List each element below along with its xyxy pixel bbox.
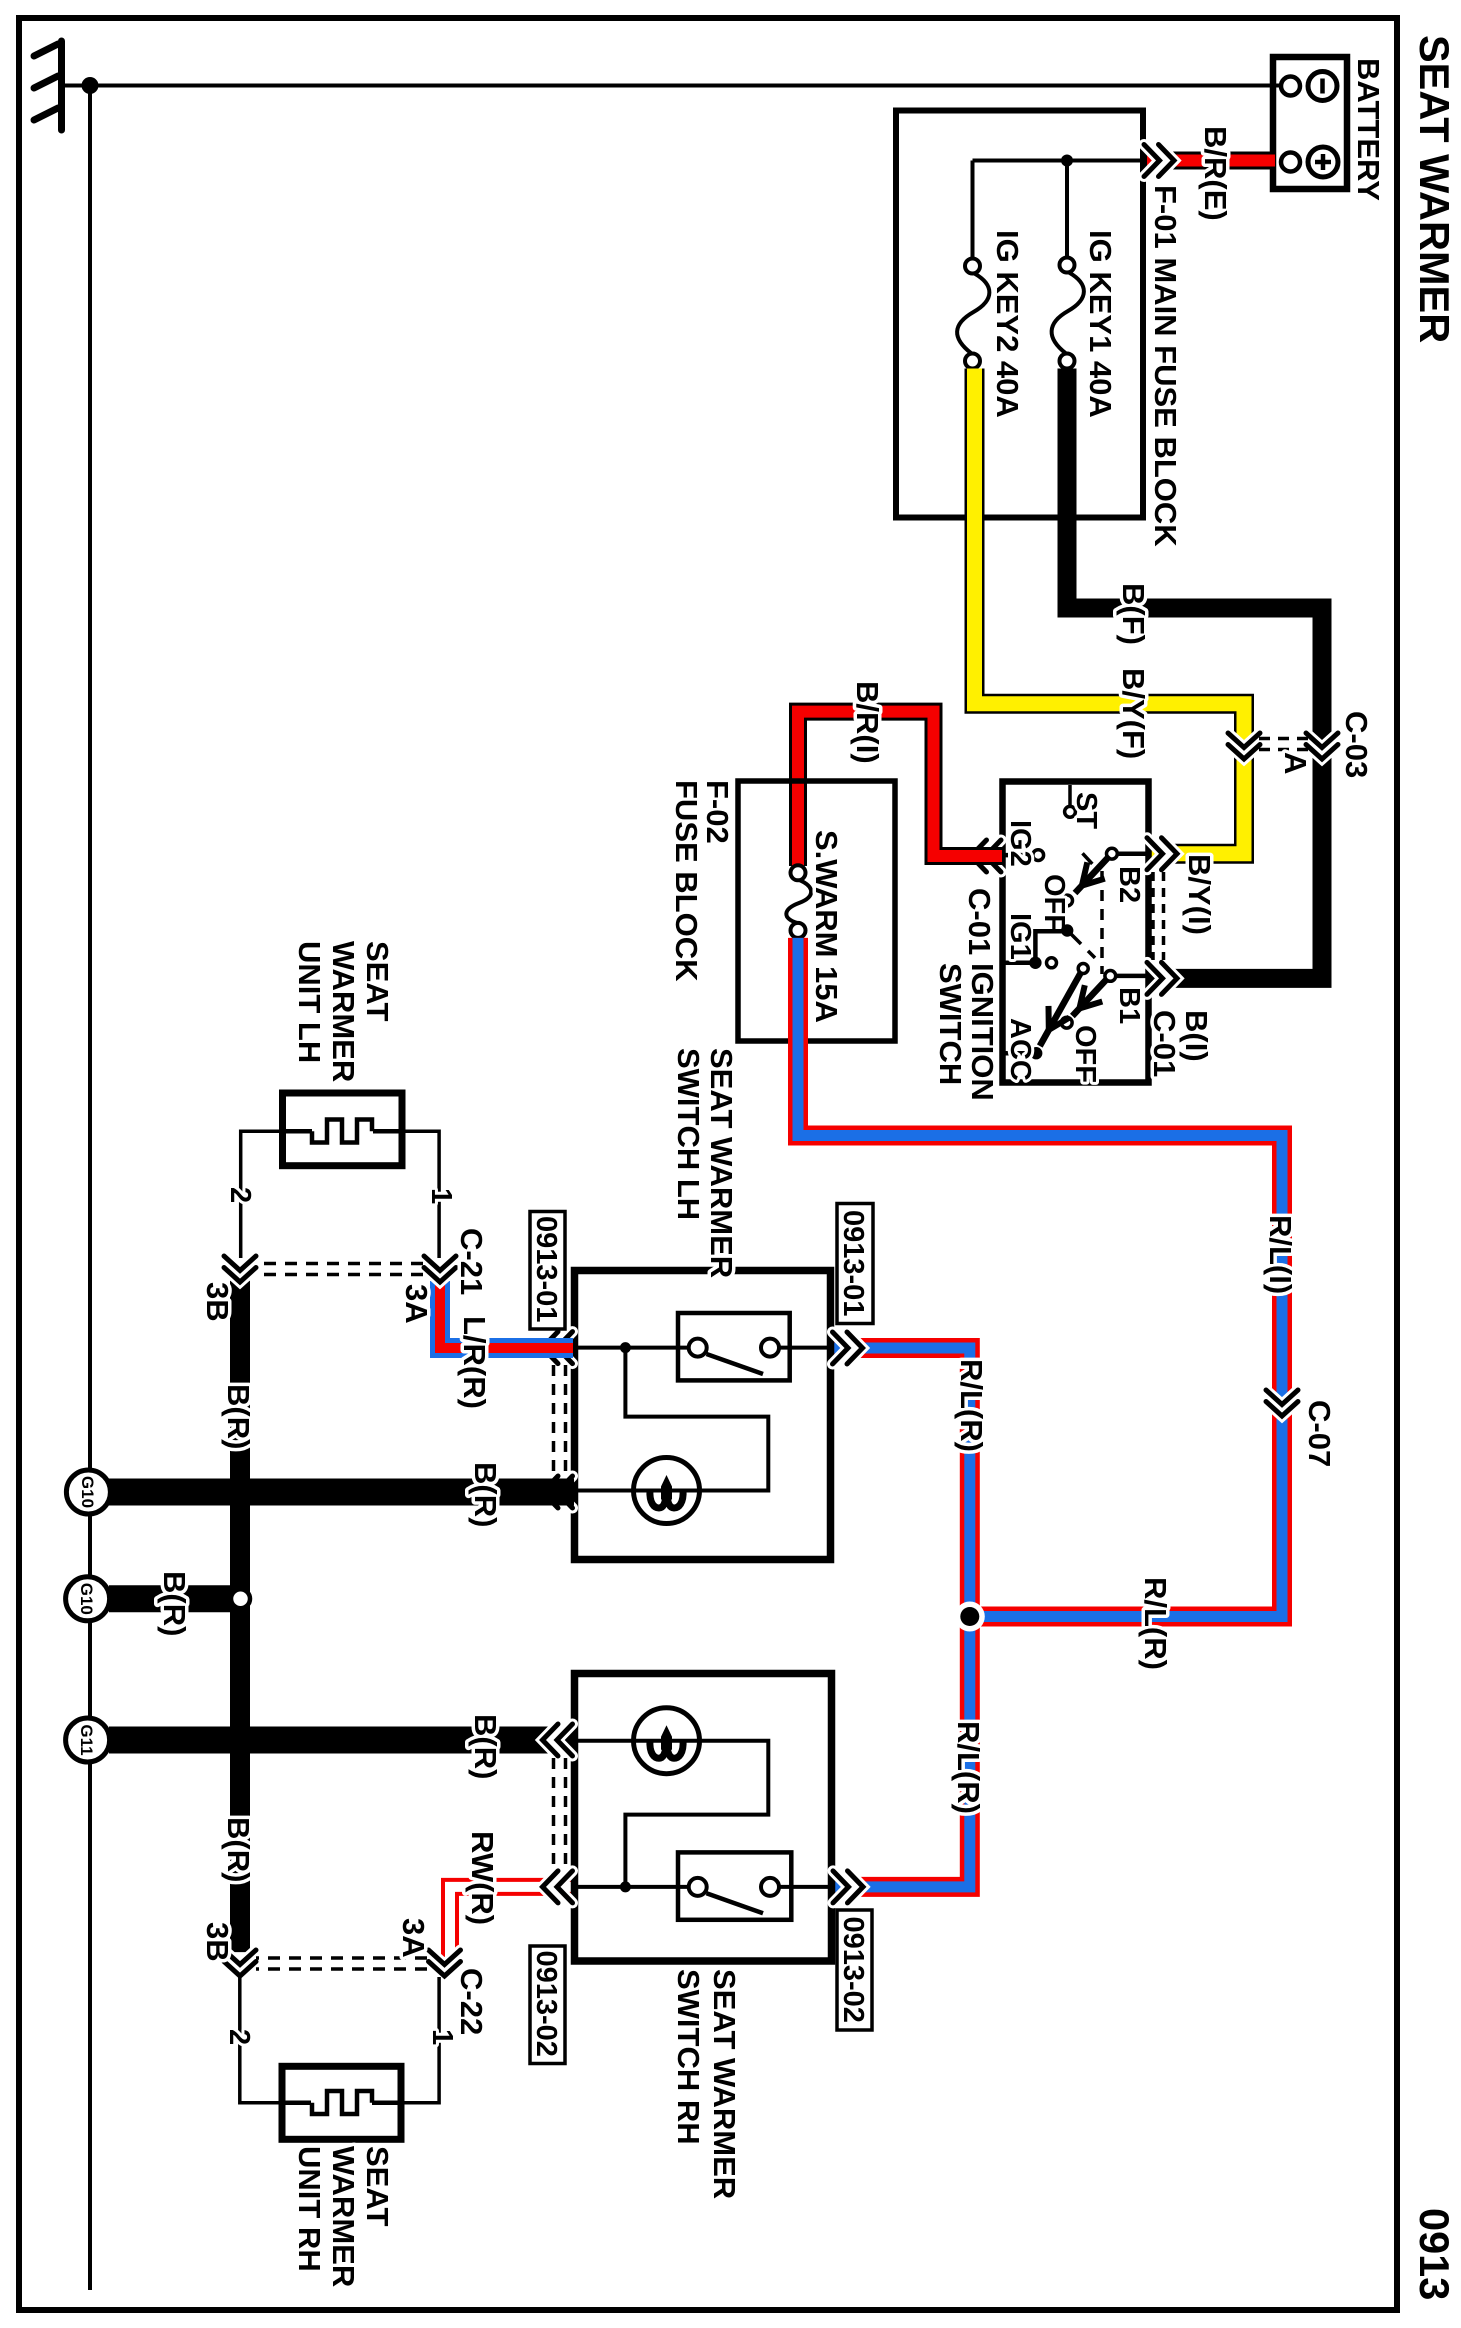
svg-text:B(R): B(R) [157, 1571, 192, 1636]
svg-text:SWITCH RH: SWITCH RH [671, 1969, 706, 2145]
wire B/Y(F) yellow from fuse2 [975, 369, 1245, 854]
ignition mechanical link dashed [1100, 871, 1104, 974]
seat warmer unit LH pin 2 wire [241, 1131, 282, 1258]
battery plus terminal [1281, 153, 1300, 172]
ignition B1 pin [1105, 971, 1146, 982]
seat warmer unit RH pin 2 wire [240, 1977, 282, 2103]
connector chevron B(I) at B1 [1147, 962, 1177, 994]
LH switch sub-box [678, 1313, 790, 1380]
wire B(R) trunk [230, 1281, 250, 1952]
svg-text:B/Y(I): B/Y(I) [1182, 854, 1217, 935]
svg-text:SEAT: SEAT [360, 2146, 395, 2226]
ignition arm to ACC [1040, 973, 1081, 1046]
wire R/L(R) junction to RH switch [831, 1617, 970, 1887]
svg-text:SWITCH: SWITCH [933, 963, 968, 1085]
svg-text:B(R): B(R) [468, 1714, 503, 1779]
RH connector dashed lines [554, 1758, 566, 1869]
svg-text:R/L(I): R/L(I) [1263, 1215, 1298, 1294]
wire B(R) thick RH to G11 [109, 1727, 574, 1754]
battery plus symbol [1308, 147, 1338, 177]
chevron B(R) at LH box [543, 1476, 573, 1508]
svg-text:L/R(R): L/R(R) [457, 1316, 492, 1409]
chevron RW(R) at RH box input [543, 1871, 573, 1903]
svg-text:ACC: ACC [1004, 1018, 1036, 1081]
chevron L/R(R) at LH box input [543, 1332, 573, 1364]
svg-text:G11: G11 [77, 1724, 96, 1755]
RH internal wires [578, 1741, 828, 1887]
seat warmer unit RH pin 1 wire [401, 1977, 439, 2103]
connector C-03 dashed lines [1255, 739, 1308, 750]
connector C-22 dashed lines [256, 1958, 427, 1969]
ignition arm B1 to OFF [1072, 979, 1107, 1016]
seat warmer unit LH pin 1 wire [402, 1131, 439, 1258]
ignition diagonal dashes to B1 [1071, 934, 1095, 958]
svg-text:SEAT WARMER: SEAT WARMER [1411, 35, 1458, 343]
connector C-22 chevron 3B [224, 1950, 256, 1976]
RH indicator lamp [634, 1708, 700, 1774]
svg-text:B/R(I): B/R(I) [850, 681, 885, 764]
chevron R/L(R) at RH box output [833, 1871, 863, 1903]
connector chevron B/Y(I) at B2 [1147, 838, 1177, 870]
svg-text:R/L(R): R/L(R) [1138, 1577, 1173, 1670]
ground link [62, 84, 90, 88]
svg-text:C-01: C-01 [962, 888, 997, 955]
svg-text:SEAT: SEAT [360, 941, 395, 1021]
svg-text:1: 1 [425, 1188, 457, 1204]
svg-text:F-02: F-02 [700, 780, 735, 844]
fuse IG KEY1 40A [1052, 258, 1084, 369]
unit LH heating element [282, 1120, 402, 1143]
svg-text:IG1: IG1 [1004, 913, 1036, 960]
svg-text:F-01 MAIN FUSE BLOCK: F-01 MAIN FUSE BLOCK [1148, 185, 1183, 547]
svg-text:SEAT WARMER: SEAT WARMER [707, 1969, 742, 2199]
wire B(F) thick black from fuse1 [1067, 369, 1322, 979]
connector C-21 dashed lines [256, 1264, 423, 1275]
svg-text:S.WARM 15A: S.WARM 15A [809, 830, 844, 1023]
LH junction dot [620, 1342, 631, 1353]
ignition B2 pin [1107, 848, 1147, 859]
connector chevron B/R(I) at IG2 [971, 840, 1001, 872]
svg-text:B(I): B(I) [1179, 1010, 1214, 1062]
connector C-22 chevron 3A [429, 1950, 461, 1976]
wire L/R(R) blue-red from C-21 to LH switch [440, 1281, 573, 1348]
svg-text:A: A [1278, 752, 1313, 774]
seat warmer unit RH box [282, 2066, 401, 2139]
wire B(R) thick LH to G10 [109, 1479, 574, 1506]
svg-text:0913-01: 0913-01 [530, 1216, 562, 1322]
svg-text:2: 2 [224, 1187, 256, 1203]
svg-text:R/L(R): R/L(R) [951, 1721, 986, 1814]
connector C-03 chevron on black wire [1306, 733, 1338, 759]
svg-text:G10: G10 [77, 1583, 96, 1615]
connector C-21 chevron 3B [224, 1256, 256, 1282]
seat warmer switch LH box [575, 1271, 831, 1560]
ground G10 second [66, 1577, 110, 1621]
svg-text:0913-01: 0913-01 [837, 1210, 869, 1316]
R/L junction dot [955, 1602, 985, 1632]
svg-text:B/R(E): B/R(E) [1198, 126, 1233, 221]
LH switch blade [707, 1354, 764, 1374]
svg-text:3B: 3B [200, 1922, 235, 1962]
wire R/L(I) red-blue from fuse to C-07 and down [798, 938, 1282, 1617]
F-02 fuse block box [738, 781, 895, 1041]
ignition IG2 pin [1006, 850, 1044, 861]
ignition arm B2 to OFF [1075, 856, 1110, 893]
chevron B(R) at RH box [543, 1724, 573, 1756]
svg-text:C-07: C-07 [1302, 1400, 1337, 1467]
svg-text:IG KEY1 40A: IG KEY1 40A [1083, 230, 1118, 418]
LH connector dashed lines [554, 1365, 566, 1476]
svg-text:C-03: C-03 [1339, 711, 1374, 778]
svg-text:IG KEY2 40A: IG KEY2 40A [990, 230, 1025, 418]
ground node junction [82, 77, 99, 94]
F-01 internal feed line [973, 159, 1144, 163]
ground G10 first [66, 1470, 110, 1514]
svg-text:B(R): B(R) [221, 1384, 256, 1449]
connector C-01 dashed lines [1153, 872, 1164, 960]
trunk open circle junction [231, 1589, 250, 1608]
boxed label 0913-02 lower [530, 1946, 565, 2064]
F-01 main fuse block box [896, 111, 1143, 518]
svg-text:WARMER: WARMER [326, 941, 361, 1082]
connector C-21 chevron 3A [424, 1256, 456, 1282]
connector chevron B/R(E) at F-01 [1144, 145, 1174, 177]
unit RH heating element [282, 2091, 401, 2114]
svg-text:C-21: C-21 [454, 1228, 489, 1295]
svg-text:R/L(R): R/L(R) [954, 1359, 989, 1452]
RH switch blade [707, 1893, 764, 1913]
svg-text:IGNITION: IGNITION [965, 963, 1000, 1101]
fuse S.WARM 15A [786, 865, 811, 938]
ignition IG1 pin [1006, 957, 1057, 969]
RH switch sub-box [678, 1852, 791, 1919]
svg-text:SWITCH LH: SWITCH LH [671, 1048, 706, 1220]
LH internal wires [578, 1348, 827, 1491]
wire B(R) G10 second bar [109, 1585, 232, 1612]
wire B/R(E) red battery to F-01 [1145, 152, 1275, 170]
battery minus terminal [1281, 77, 1300, 96]
ignition contact circle mid [1078, 964, 1088, 974]
F-01 branch to fuse 2 [971, 161, 975, 260]
svg-text:2: 2 [223, 2029, 255, 2045]
svg-text:BATTERY: BATTERY [1351, 58, 1386, 201]
svg-text:B(F): B(F) [1116, 583, 1151, 645]
svg-text:FUSE BLOCK: FUSE BLOCK [669, 780, 704, 982]
wire R/L(R) junction to LH switch [830, 1348, 970, 1617]
svg-text:OFF: OFF [1069, 1025, 1101, 1083]
svg-text:WARMER: WARMER [326, 2146, 361, 2287]
svg-text:3A: 3A [396, 1918, 431, 1958]
boxed label 0913-01 upper [837, 1204, 873, 1324]
ignition switch box [1003, 782, 1149, 1083]
ignition ST pin [1065, 785, 1076, 817]
wire ground from battery minus [90, 84, 1281, 88]
svg-text:UNIT LH: UNIT LH [292, 941, 327, 1063]
svg-text:B2: B2 [1113, 866, 1145, 903]
connector C-03 chevron on yellow wire [1228, 733, 1260, 759]
svg-text:3A: 3A [399, 1284, 434, 1324]
svg-text:C-22: C-22 [454, 1968, 489, 2035]
wire RW(R) from RH switch to C-22 [450, 1887, 573, 1958]
svg-text:C-01: C-01 [1147, 1010, 1182, 1077]
svg-text:B(R): B(R) [221, 1817, 256, 1882]
svg-text:0913: 0913 [1411, 2208, 1458, 2300]
seat warmer unit LH box [283, 1093, 403, 1166]
LH indicator lamp [634, 1458, 700, 1524]
svg-text:ST: ST [1070, 792, 1102, 829]
RH junction dot [620, 1881, 631, 1892]
svg-text:OFF: OFF [1038, 874, 1070, 932]
F-01 branch to fuse 1 [1065, 161, 1069, 259]
ignition OFF contact upper [1062, 895, 1073, 906]
svg-text:B/Y(F): B/Y(F) [1116, 668, 1151, 759]
svg-text:1: 1 [426, 2029, 458, 2045]
F-01 feed junction dot [1061, 155, 1073, 167]
RH switch contacts [689, 1878, 779, 1896]
svg-text:B1: B1 [1113, 987, 1145, 1024]
svg-text:SEAT WARMER: SEAT WARMER [704, 1048, 739, 1278]
ignition OFF contact lower [1061, 1017, 1072, 1028]
svg-text:3B: 3B [200, 1282, 235, 1322]
svg-text:B(R): B(R) [468, 1462, 503, 1527]
wire B/R(I) red from IG2 to F-02 [798, 712, 1002, 866]
svg-text:RW(R): RW(R) [465, 1831, 500, 1925]
svg-text:UNIT RH: UNIT RH [292, 2146, 327, 2272]
ignition ACC pin [1006, 1047, 1043, 1059]
ignition IG1 link [1035, 924, 1073, 963]
fuse IG KEY2 40A [957, 259, 989, 369]
svg-text:0913-02: 0913-02 [837, 1917, 869, 2023]
svg-text:0913-02: 0913-02 [530, 1951, 562, 2057]
battery box [1273, 57, 1347, 189]
seat warmer switch RH box [575, 1674, 832, 1962]
ground symbol [34, 41, 62, 130]
LH switch contacts [689, 1339, 779, 1357]
ground G11 [66, 1718, 110, 1762]
ground bus wire [88, 86, 92, 2291]
chevron R/L(R) at LH box output [833, 1332, 863, 1364]
battery minus symbol [1308, 72, 1337, 101]
boxed label 0913-02 upper [837, 1910, 872, 2030]
svg-text:IG2: IG2 [1004, 820, 1036, 867]
connector C-07 chevron [1266, 1390, 1298, 1416]
ignition dash near B2 [1083, 853, 1093, 864]
svg-text:G10: G10 [78, 1476, 97, 1508]
boxed label 0913-01 lower [530, 1212, 565, 1330]
